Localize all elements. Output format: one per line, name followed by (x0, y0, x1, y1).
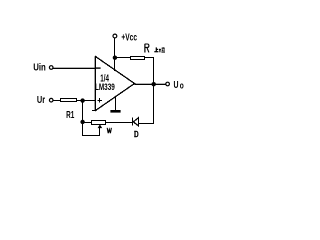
wire R1 to non-inverting input (77, 100, 97, 102)
wire node A vertical down to pot wiper return (82, 101, 84, 137)
plus input symbol (98, 100, 103, 102)
terminal Ur circle (49, 98, 53, 102)
op-amp U1 triangle (1/4 LM339) (96, 57, 135, 111)
svg-text:+Vcc: +Vcc (121, 33, 137, 44)
junction dot output node (152, 82, 156, 86)
wire resistor R to corner (145, 57, 155, 59)
ground stem (115, 97, 117, 111)
label D (134, 131, 138, 136)
label R pull-up (145, 44, 149, 53)
label pull-up subscript glyph shang (154, 47, 158, 51)
terminal Uin circle (49, 66, 53, 70)
svg-text:R1: R1 (66, 110, 74, 121)
wire output apex to Uo terminal (135, 84, 166, 86)
wire Vcc vertical down into op-amp top edge (114, 38, 116, 71)
wire right vertical up to output node (153, 85, 155, 124)
svg-text:U: U (174, 80, 179, 91)
junction dot Vcc/R (113, 56, 117, 60)
svg-text:Uin: Uin (33, 63, 46, 74)
wire Ur to R1 (53, 100, 61, 102)
svg-text:Ur: Ur (37, 95, 45, 106)
junction dot pot node (80, 120, 84, 124)
wire pot node to pot body (83, 122, 92, 124)
wire pot to diode (106, 122, 133, 124)
resistor R1 body (61, 99, 77, 102)
svg-text:o: o (180, 81, 184, 91)
potentiometer W body (92, 121, 106, 125)
wire wiper return bottom run (83, 135, 101, 137)
wire pull-up vertical down to output node (153, 58, 155, 85)
resistor R (pull-up) body (131, 57, 145, 60)
terminal Uo circle (166, 82, 170, 86)
minus input symbol (96, 67, 101, 68)
wire diode to right corner and up (139, 123, 155, 125)
terminal +Vcc circle (113, 34, 117, 38)
wiper arrow of potentiometer W (98, 124, 103, 128)
wire Vcc junction to pull-up resistor (115, 57, 131, 59)
wire stub at op-amp bottom-left corner (92, 110, 96, 112)
svg-text:LM339: LM339 (95, 81, 115, 92)
junction dot node A (R1 / pot branch) (80, 98, 84, 102)
ground bar (110, 110, 120, 113)
label W (107, 128, 111, 133)
wire fringe above output run (135, 83, 166, 85)
label pull-up subscript glyph la (159, 47, 165, 52)
diode D triangle (133, 118, 138, 126)
wire fringe above Uin run (53, 67, 95, 69)
wire wiper stem up (99, 127, 101, 136)
op-amp left edge thickening (93, 56, 95, 111)
diode D cathode bar (132, 118, 134, 126)
wire Uin to inverting input and minus stroke (53, 68, 96, 70)
